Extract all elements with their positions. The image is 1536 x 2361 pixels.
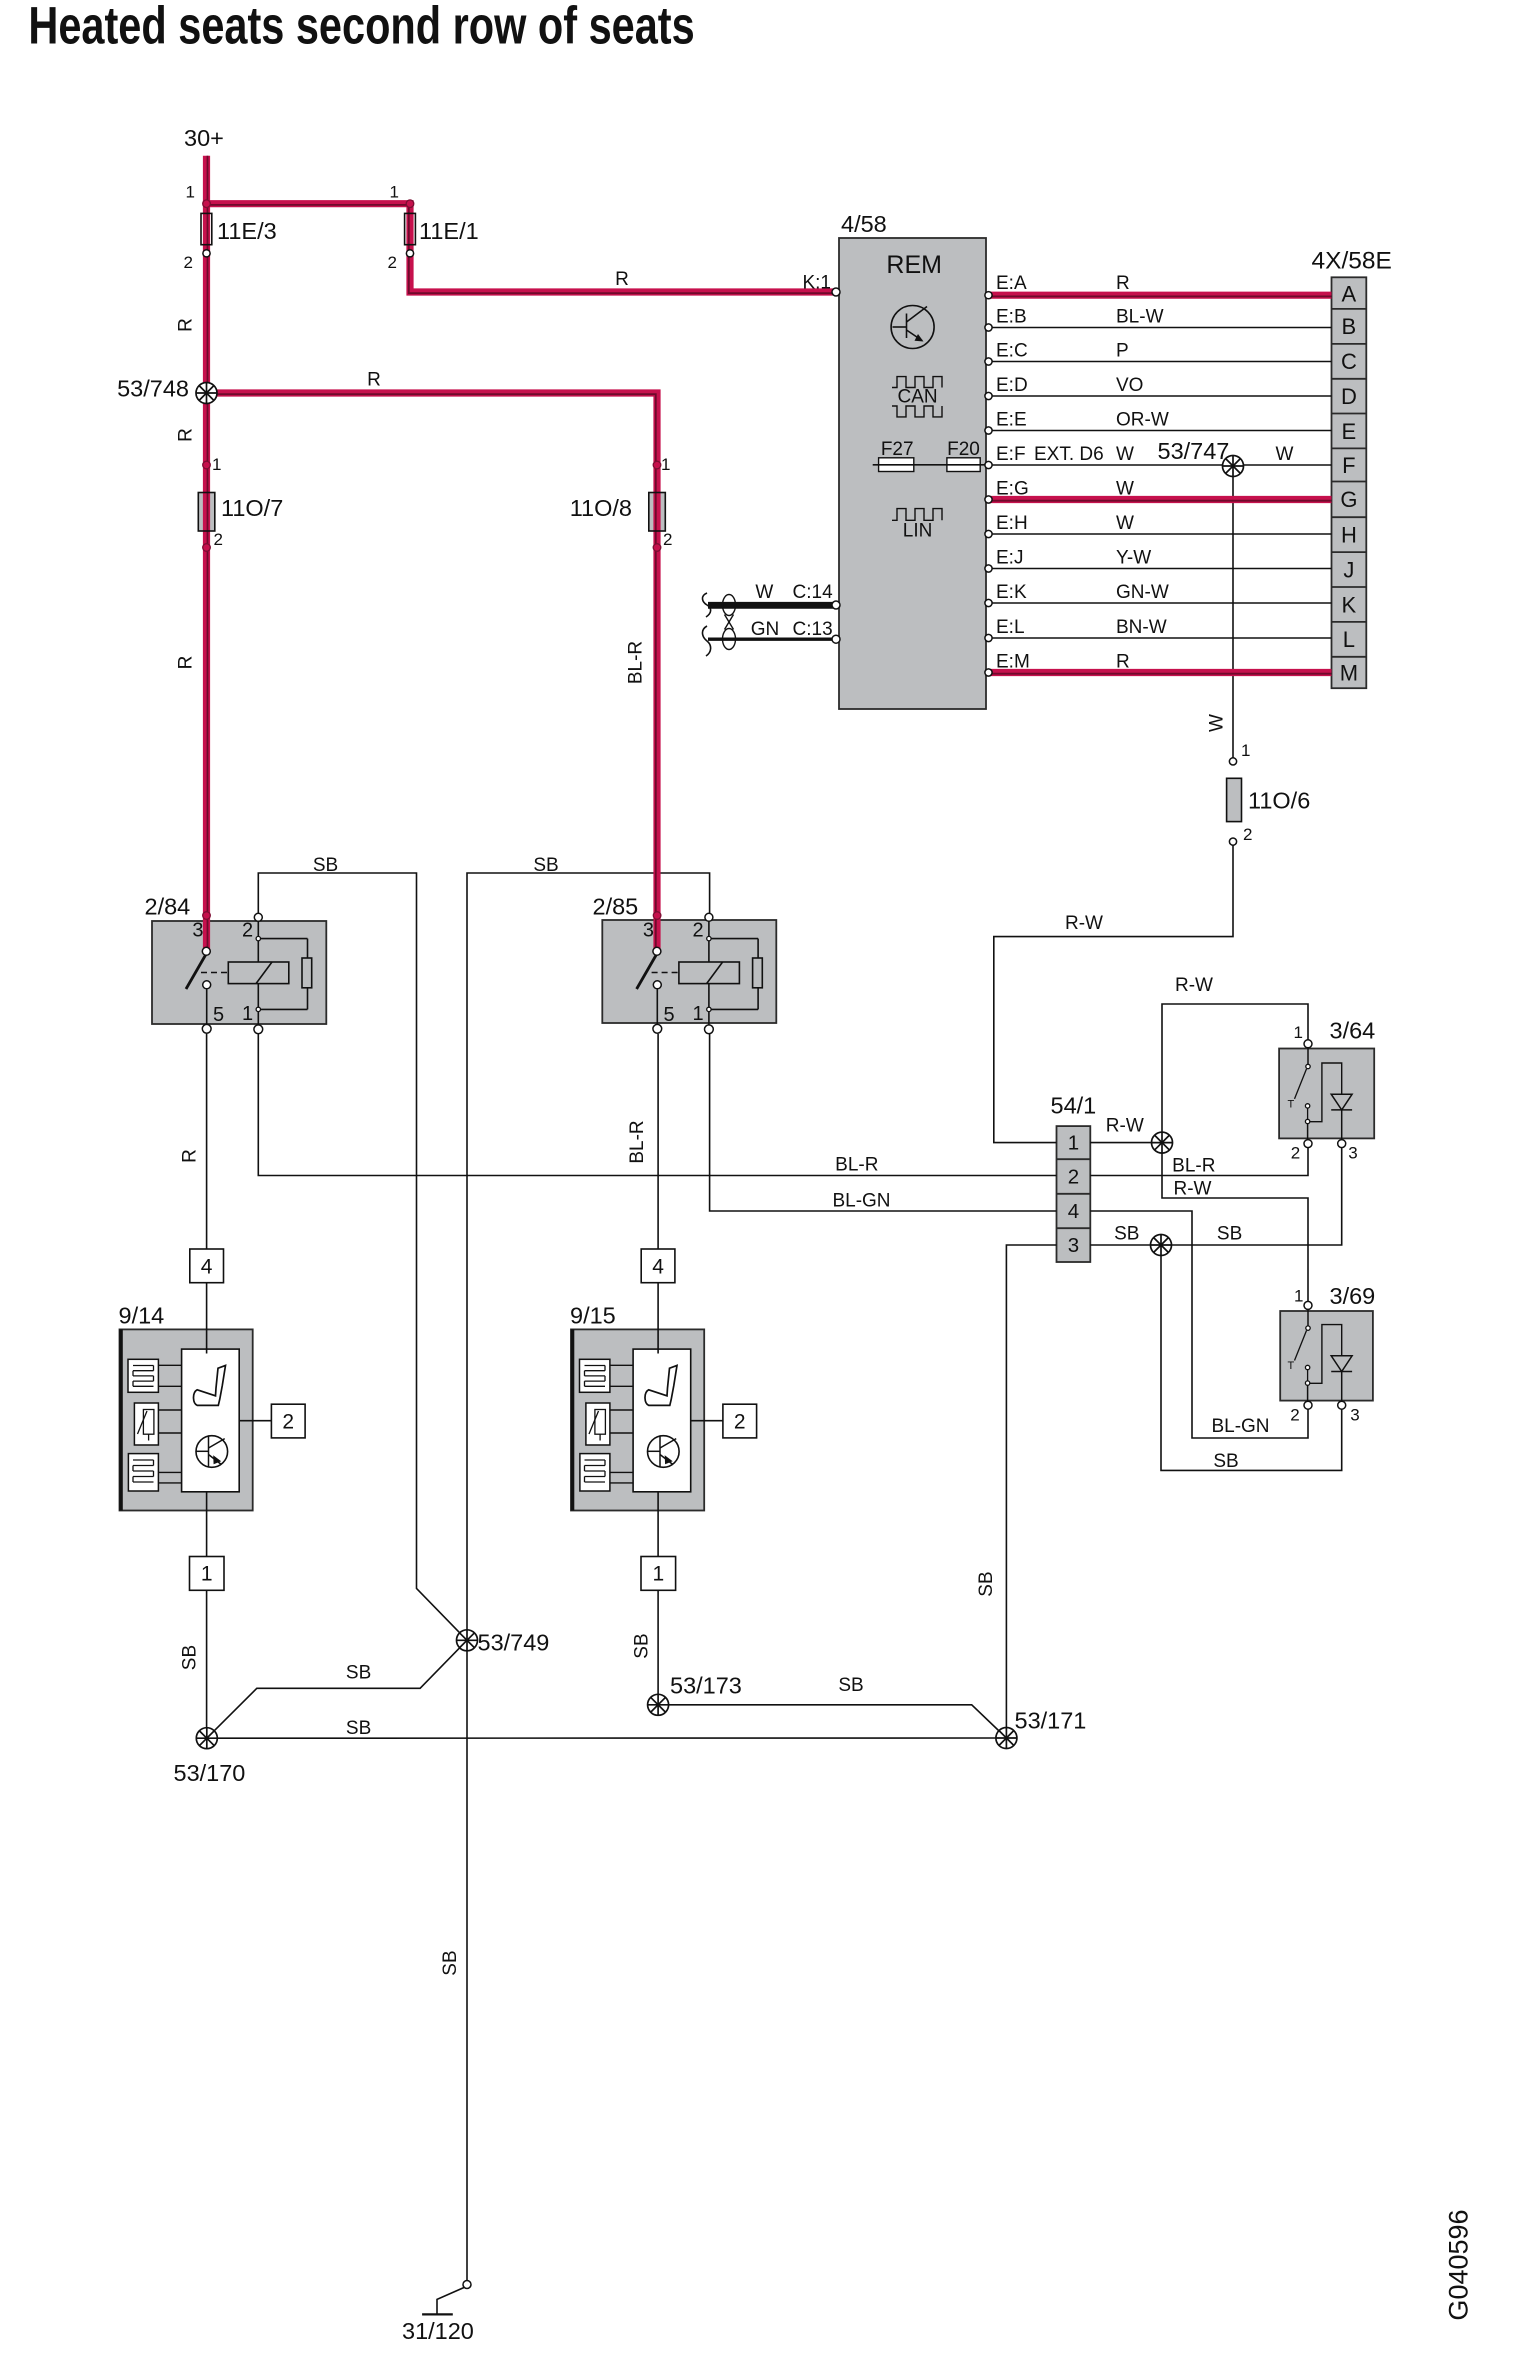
svg-text:30+: 30+ [184,125,224,151]
svg-text:E:G: E:G [996,478,1029,499]
svg-text:J: J [1343,557,1354,582]
svg-text:SB: SB [838,1675,863,1696]
svg-text:1: 1 [390,183,399,202]
svg-text:F: F [1342,453,1355,478]
svg-text:R: R [1116,651,1130,672]
svg-text:Heated seats second row of sea: Heated seats second row of seats [28,0,694,56]
svg-text:2: 2 [388,253,397,272]
svg-text:C:14: C:14 [793,582,834,603]
svg-text:11O/6: 11O/6 [1248,788,1310,814]
svg-text:E:L: E:L [996,617,1025,638]
svg-text:53/173: 53/173 [670,1673,742,1699]
svg-text:E:E: E:E [996,409,1027,430]
svg-text:1: 1 [201,1563,213,1586]
svg-text:4/58: 4/58 [841,211,887,237]
svg-text:11E/3: 11E/3 [217,218,277,244]
svg-text:9/15: 9/15 [570,1303,616,1329]
svg-text:1: 1 [1294,1023,1303,1042]
svg-text:53/170: 53/170 [174,1760,246,1786]
svg-text:1: 1 [212,455,221,474]
svg-text:4: 4 [652,1256,664,1279]
svg-text:R: R [176,656,197,670]
svg-text:1: 1 [652,1563,664,1586]
svg-text:1: 1 [661,455,670,474]
svg-text:2: 2 [282,1411,294,1434]
svg-text:VO: VO [1116,375,1143,396]
svg-text:4X/58E: 4X/58E [1312,247,1392,274]
svg-text:GN-W: GN-W [1116,582,1169,603]
svg-text:E:M: E:M [996,651,1030,672]
svg-text:SB: SB [1114,1224,1139,1245]
svg-text:R-W: R-W [1175,975,1213,996]
svg-text:2: 2 [1290,1406,1299,1425]
svg-text:CAN: CAN [898,387,938,408]
svg-text:R: R [1116,273,1130,294]
svg-text:SB: SB [180,1645,201,1670]
svg-text:M: M [1340,660,1358,685]
svg-text:E:K: E:K [996,582,1027,603]
svg-text:2: 2 [214,530,223,549]
svg-text:3: 3 [1348,1144,1357,1163]
svg-text:53/749: 53/749 [478,1630,550,1656]
svg-text:2: 2 [1068,1166,1079,1189]
svg-text:EXT. D6: EXT. D6 [1034,444,1104,465]
svg-text:H: H [1341,523,1357,548]
svg-text:W: W [1116,478,1134,499]
svg-text:11E/1: 11E/1 [419,218,479,244]
svg-text:BL-R: BL-R [835,1155,878,1176]
svg-text:2: 2 [734,1411,746,1434]
svg-text:E:C: E:C [996,340,1028,361]
svg-text:D: D [1341,384,1357,409]
svg-text:1: 1 [1068,1132,1079,1155]
svg-text:GN: GN [751,619,780,640]
svg-text:SB: SB [440,1950,461,1975]
svg-text:BL-R: BL-R [627,1120,648,1163]
svg-text:LIN: LIN [903,521,933,542]
svg-text:R: R [180,1149,201,1163]
svg-text:R-W: R-W [1065,913,1103,934]
svg-text:C:13: C:13 [793,619,833,640]
svg-text:1: 1 [186,183,195,202]
svg-text:E:D: E:D [996,375,1028,396]
svg-text:W: W [1276,444,1294,465]
svg-text:E:F: E:F [996,444,1026,465]
svg-text:1: 1 [1241,741,1250,760]
svg-text:SB: SB [976,1571,997,1596]
svg-text:E:J: E:J [996,547,1023,568]
svg-text:1: 1 [1294,1287,1303,1306]
svg-text:W: W [1116,444,1134,465]
svg-text:9/14: 9/14 [119,1303,165,1329]
svg-text:SB: SB [632,1633,653,1658]
svg-text:3/64: 3/64 [1330,1017,1376,1043]
svg-text:W: W [755,582,773,603]
svg-text:3: 3 [1068,1234,1079,1257]
svg-text:F27: F27 [881,439,914,460]
svg-text:R: R [615,269,629,290]
svg-text:Y-W: Y-W [1116,547,1151,568]
svg-text:R-W: R-W [1174,1179,1212,1200]
svg-text:B: B [1342,314,1357,339]
svg-text:53/171: 53/171 [1015,1708,1087,1734]
svg-text:A: A [1342,282,1357,307]
svg-text:3: 3 [1350,1406,1359,1425]
svg-text:E: E [1342,419,1357,444]
svg-text:BL-R: BL-R [626,641,647,684]
svg-text:2: 2 [1291,1144,1300,1163]
svg-text:4: 4 [201,1256,213,1279]
svg-text:P: P [1116,340,1129,361]
svg-text:BL-R: BL-R [1172,1156,1215,1177]
svg-text:2: 2 [663,530,672,549]
svg-text:BL-GN: BL-GN [1211,1416,1269,1437]
svg-text:R: R [176,428,197,442]
svg-text:SB: SB [1217,1224,1242,1245]
svg-text:SB: SB [533,855,558,876]
svg-text:K: K [1342,592,1357,617]
svg-text:W: W [1207,714,1228,732]
svg-text:R: R [176,318,197,332]
svg-text:54/1: 54/1 [1051,1092,1097,1118]
svg-text:2: 2 [1243,825,1252,844]
svg-text:53/747: 53/747 [1158,438,1230,464]
svg-text:K:1: K:1 [802,273,831,294]
svg-text:E:B: E:B [996,306,1027,327]
svg-text:31/120: 31/120 [402,2318,474,2344]
svg-text:E:A: E:A [996,273,1027,294]
svg-text:W: W [1116,513,1134,534]
svg-text:REM: REM [886,251,942,279]
svg-text:53/748: 53/748 [117,376,189,402]
svg-text:C: C [1341,349,1357,374]
svg-text:E:H: E:H [996,513,1028,534]
svg-text:OR-W: OR-W [1116,409,1169,430]
svg-text:11O/8: 11O/8 [570,495,632,521]
svg-text:BL-W: BL-W [1116,306,1164,327]
svg-text:R: R [367,370,381,391]
svg-text:F20: F20 [947,439,980,460]
svg-text:G040596: G040596 [1444,2209,1474,2320]
svg-text:SB: SB [1213,1451,1238,1472]
svg-text:SB: SB [313,855,338,876]
svg-text:BN-W: BN-W [1116,617,1167,638]
svg-text:11O/7: 11O/7 [221,495,283,521]
svg-text:4: 4 [1068,1200,1079,1223]
svg-text:2/84: 2/84 [145,894,191,920]
svg-text:3/69: 3/69 [1330,1283,1376,1309]
svg-text:SB: SB [346,1718,371,1739]
svg-text:SB: SB [346,1663,371,1684]
svg-text:L: L [1343,627,1355,652]
svg-text:G: G [1340,487,1357,512]
svg-text:R-W: R-W [1106,1116,1144,1137]
svg-text:2: 2 [184,253,193,272]
svg-text:2/85: 2/85 [593,894,639,920]
svg-text:BL-GN: BL-GN [832,1191,890,1212]
